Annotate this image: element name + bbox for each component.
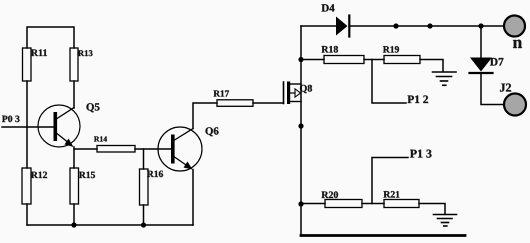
wire R20 to R21 [362,203,384,205]
resistor R16 [140,169,149,205]
wire R18 to R19 [364,59,384,61]
label P1 3 [410,150,432,158]
label P1 2 [408,95,429,103]
wire R21 to ground [419,204,445,215]
label R11 [31,49,47,56]
resistor R13 [70,48,78,81]
label R12 [31,172,47,178]
wire Q5 emitter to R14 [74,148,97,150]
wire main vertical rail [300,26,302,235]
resistor R14 [97,146,135,153]
wire R17 to Q8 gate [253,102,284,104]
wire D7 anode tap [480,26,482,58]
wire D4 cathode to connector n [350,25,504,27]
resistor R11 [23,48,32,81]
wire Q5 emitter down to R15 [73,147,75,168]
resistor R17 [217,100,253,107]
wire R16 bottom [143,205,145,225]
wire port P1.2 stub [372,60,406,104]
label D4 [322,4,335,11]
connector n [504,16,525,37]
diode D7 [470,58,493,74]
wire bottom-right thick ground bus [301,234,465,237]
diode D4 [336,16,349,37]
wire rail to R18 [301,59,324,61]
ground bottom-right [434,215,457,227]
resistor R21 [384,200,419,208]
label Q8 [300,85,312,93]
wire left column R11 bottom to R12 top [26,81,28,168]
junction dot rail at R18 row [298,57,303,62]
wire R19 to ground [420,60,443,72]
junction dot rail at R20 row [298,201,303,206]
wire port P1.3 stub [372,158,408,204]
label J2 [500,84,511,92]
junction dot top wire 1 [393,23,398,28]
resistor R15 [70,168,79,204]
wire Q6 emitter down to ground bus [192,170,194,226]
junction dot top wire at D7 tap [478,23,483,28]
label R21 [384,191,400,197]
connector J2 [504,94,526,116]
resistor R12 [22,168,31,204]
label R17 [214,90,230,96]
label Q6 [206,127,219,136]
mosfet Q8 [284,82,302,105]
label Q5 [87,103,100,112]
transistor Q6 [158,127,202,171]
resistor R19 [384,56,420,64]
junction dot R16 column on bus [141,222,146,227]
wire R12 bottom to ground bus [26,204,28,225]
port P0.3 label [2,116,20,123]
wire rail to R20 [301,203,325,205]
label R19 [383,46,399,52]
transistor Q5 [38,105,80,147]
junction dot rail below mosfet [298,123,303,128]
wire R16 column top [143,149,145,169]
ground top-right [433,72,457,85]
wire top-left rail connecting R11 and R13 tops [27,27,74,48]
resistor R20 [325,200,362,208]
label R18 [322,46,339,53]
wire rail to D4 anode [301,25,336,27]
wire Q6 collector up to R17 row [193,103,217,129]
wire R14 to Q6 base [135,148,171,150]
label R20 [322,191,339,198]
wire P0.3 to Q5 base [2,126,54,128]
label n [513,40,522,48]
junction dot R15 column on bus [71,222,76,227]
wire R15 bottom to ground bus [73,204,75,225]
label R14 [94,136,107,141]
junction dot top wire 2 [427,23,432,28]
label R16 [147,171,163,177]
label R15 [79,172,95,178]
wire R13 bottom to Q5 collector [73,81,75,108]
label R13 [78,50,93,56]
label D7 [490,58,504,66]
wire ground bus bottom-left [27,224,193,226]
wire D7 cathode to connector J2 [481,75,504,105]
resistor R18 [324,56,364,64]
